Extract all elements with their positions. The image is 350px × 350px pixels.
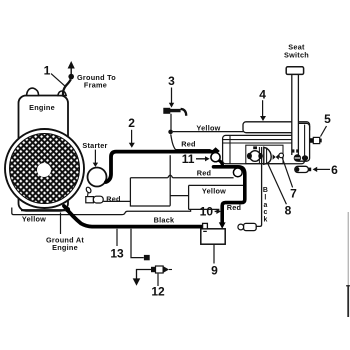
- svg-text:Engine: Engine: [29, 103, 55, 112]
- svg-text:Yellow: Yellow: [196, 123, 220, 132]
- svg-text:11: 11: [182, 152, 195, 166]
- svg-text:Yellow: Yellow: [202, 186, 226, 195]
- svg-text:Starter: Starter: [82, 141, 107, 150]
- svg-text:Frame: Frame: [84, 81, 107, 90]
- svg-text:10: 10: [200, 205, 214, 219]
- svg-text:c: c: [263, 209, 267, 216]
- svg-text:Red: Red: [181, 139, 196, 148]
- svg-text:7: 7: [290, 186, 297, 200]
- svg-text:6: 6: [331, 163, 338, 177]
- svg-text:Red: Red: [106, 194, 121, 203]
- svg-text:2: 2: [128, 116, 135, 130]
- svg-text:B: B: [263, 187, 268, 194]
- svg-text:l: l: [264, 194, 266, 201]
- svg-text:1: 1: [44, 63, 51, 77]
- svg-text:5: 5: [324, 112, 331, 126]
- svg-text:Red: Red: [227, 203, 242, 212]
- svg-text:Switch: Switch: [284, 50, 309, 59]
- svg-text:Yellow: Yellow: [22, 215, 46, 224]
- svg-text:Black: Black: [154, 215, 175, 224]
- svg-text:k: k: [263, 216, 267, 223]
- svg-text:Engine: Engine: [52, 243, 78, 252]
- svg-text:13: 13: [110, 247, 124, 261]
- svg-text:Red: Red: [197, 169, 212, 178]
- svg-text:12: 12: [151, 285, 165, 299]
- svg-text:3: 3: [168, 74, 175, 88]
- svg-text:8: 8: [285, 204, 292, 218]
- svg-text:9: 9: [211, 264, 218, 278]
- svg-text:4: 4: [259, 88, 266, 102]
- svg-text:a: a: [263, 202, 267, 209]
